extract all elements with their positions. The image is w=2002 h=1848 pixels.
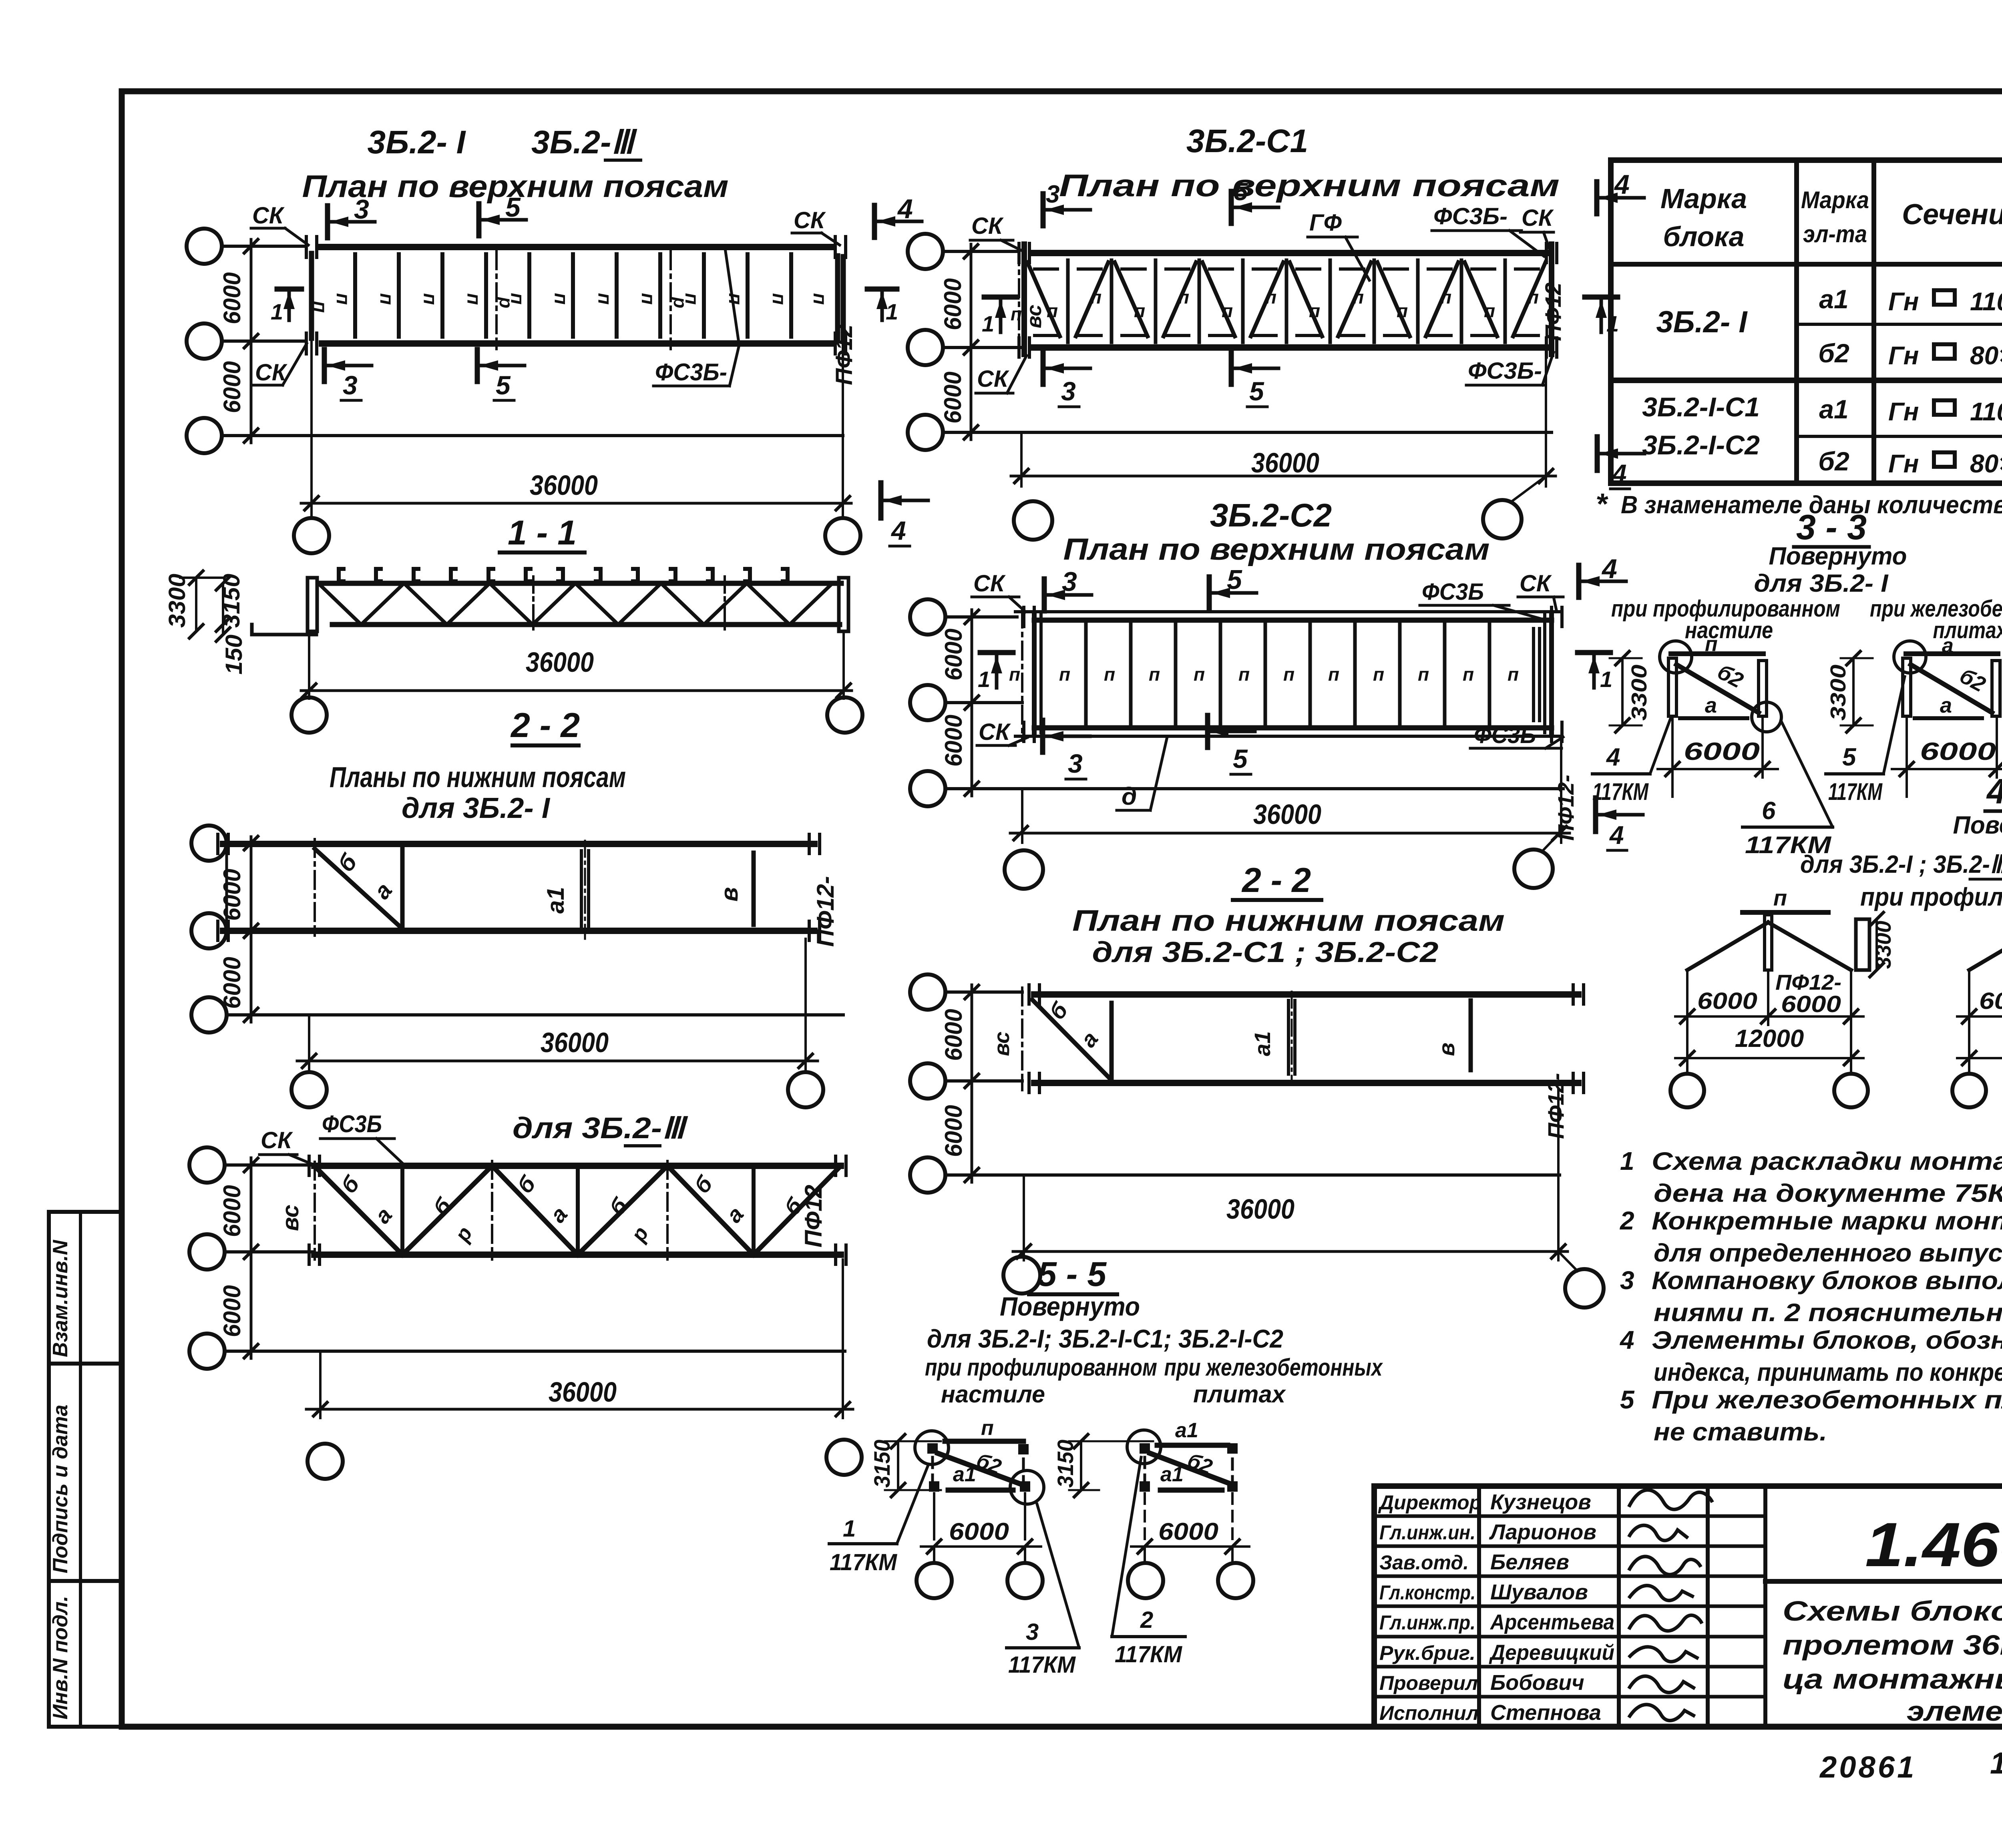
svg-text:Схемы блоков 3Б.2: Схемы блоков 3Б.2 xyxy=(1783,1595,2002,1627)
svg-text:5: 5 xyxy=(505,192,521,223)
svg-text:Сечение: Сечение xyxy=(1902,199,2002,231)
table of element masses xyxy=(1611,157,2002,163)
svg-text:117КМ: 117КМ xyxy=(1008,1652,1076,1678)
svg-text:6000: 6000 xyxy=(219,272,245,324)
svg-text:6000: 6000 xyxy=(219,1185,245,1237)
svg-text:Шувалов: Шувалов xyxy=(1490,1580,1588,1604)
svg-text:1: 1 xyxy=(1600,667,1612,692)
svg-text:ФС3Б: ФС3Б xyxy=(1422,579,1484,605)
svg-text:п: п xyxy=(768,293,790,305)
svg-text:п: п xyxy=(1373,664,1384,685)
svg-text:вс: вс xyxy=(277,1205,304,1231)
svg-text:для 3Б.2- I: для 3Б.2- I xyxy=(1754,570,1889,597)
svg-text:для 3Б.2-I; 3Б.2-I-С1; 3Б.2-I-: для 3Б.2-I; 3Б.2-I-С1; 3Б.2-I-С2 xyxy=(927,1324,1283,1353)
svg-text:6000: 6000 xyxy=(219,869,245,921)
svg-text:б2: б2 xyxy=(1818,338,1849,368)
notes 1-5 xyxy=(1619,1147,2002,1446)
svg-text:п: п xyxy=(1418,664,1429,685)
svg-text:Гл.констр.: Гл.констр. xyxy=(1379,1581,1475,1604)
purlin verticals with labels п xyxy=(353,254,357,337)
svg-text:п: п xyxy=(637,293,659,305)
svg-text:Компановку блоков выполнять: Компановку блоков выполнять в соответств… xyxy=(1652,1267,2002,1295)
left stamp boxes xyxy=(49,1212,122,1727)
svg-text:п: п xyxy=(1047,300,1058,321)
svg-text:блока: блока xyxy=(1663,221,1744,252)
svg-text:6000: 6000 xyxy=(1979,988,2002,1014)
svg-text:117КМ: 117КМ xyxy=(1592,778,1649,805)
svg-text:а: а xyxy=(1705,693,1717,717)
svg-text:80×3: 80×3 xyxy=(1970,341,2002,370)
svg-text:п: п xyxy=(310,301,331,313)
svg-text:а: а xyxy=(1940,693,1952,717)
svg-text:п: п xyxy=(1508,664,1519,685)
svg-text:ПФ12-: ПФ12- xyxy=(1553,775,1578,841)
svg-text:3150: 3150 xyxy=(1053,1440,1078,1488)
svg-text:6000: 6000 xyxy=(219,361,245,413)
svg-text:1: 1 xyxy=(1620,1147,1634,1175)
detail 3-3 at concrete slabs xyxy=(1894,641,1926,673)
svg-text:3Б.2- I: 3Б.2- I xyxy=(368,124,466,161)
dimension 6000+6000 xyxy=(250,239,253,443)
svg-text:6000: 6000 xyxy=(940,629,967,681)
svg-text:План по верхним поясам: План по верхним поясам xyxy=(1059,168,1560,203)
svg-text:п: п xyxy=(809,293,830,305)
svg-text:Кузнецов: Кузнецов xyxy=(1490,1490,1591,1514)
svg-text:р: р xyxy=(670,296,691,308)
svg-text:п: п xyxy=(1353,287,1364,307)
section arrows 1-1 xyxy=(277,287,302,292)
svg-text:117КМ: 117КМ xyxy=(830,1549,898,1575)
svg-text:3Б.2-С2: 3Б.2-С2 xyxy=(1210,497,1332,534)
svg-text:СК: СК xyxy=(977,366,1009,392)
svg-text:п: п xyxy=(550,293,571,305)
diagonal brace with labels б а xyxy=(315,849,402,929)
svg-text:при профилированном настиле: при профилированном настиле xyxy=(1860,882,2002,911)
svg-text:5: 5 xyxy=(1249,376,1264,406)
svg-text:Повернуто: Повернуто xyxy=(1000,1292,1140,1321)
svg-text:5: 5 xyxy=(496,370,511,400)
svg-text:ПФ12: ПФ12 xyxy=(1540,283,1566,341)
plan 2-2 for C1 C2 xyxy=(910,861,1604,1308)
svg-text:п: п xyxy=(1397,300,1408,321)
svg-text:п: п xyxy=(1309,300,1320,321)
svg-text:ГФ: ГФ xyxy=(1309,210,1342,236)
svg-text:Исполнил: Исполнил xyxy=(1379,1702,1479,1724)
dash-dot axes with labels р xyxy=(495,251,498,349)
svg-text:а1: а1 xyxy=(953,1463,976,1486)
svg-text:п: п xyxy=(420,293,441,305)
svg-text:п: п xyxy=(1283,664,1294,685)
svg-text:3Б.2- I: 3Б.2- I xyxy=(1656,305,1748,339)
svg-text:150: 150 xyxy=(221,635,247,675)
svg-text:4: 4 xyxy=(1619,1326,1634,1354)
svg-text:Зав.отд.: Зав.отд. xyxy=(1379,1551,1469,1574)
svg-text:3: 3 xyxy=(354,194,369,225)
svg-text:а1: а1 xyxy=(1819,394,1848,424)
svg-text:п: п xyxy=(1009,664,1020,685)
svg-text:СК: СК xyxy=(255,360,287,386)
svg-text:Гн: Гн xyxy=(1888,287,1919,316)
svg-text:для 3Б.2-I ; 3Б.2-Ⅲ: для 3Б.2-I ; 3Б.2-Ⅲ xyxy=(1800,851,2002,878)
dims 3300 3150 150 xyxy=(195,578,197,631)
svg-text:107: 107 xyxy=(1990,1746,2002,1780)
svg-text:ФС3Б-: ФС3Б- xyxy=(1468,358,1542,384)
svg-text:р: р xyxy=(496,296,517,308)
top chords of block (beam lines) xyxy=(318,244,832,250)
svg-text:3: 3 xyxy=(1068,749,1083,778)
svg-text:3: 3 xyxy=(343,370,358,400)
svg-text:12000: 12000 xyxy=(1735,1025,1804,1053)
svg-text:ца монтажных: ца монтажных xyxy=(1783,1663,2002,1695)
svg-text:б2: б2 xyxy=(1818,446,1849,476)
svg-text:Проверил: Проверил xyxy=(1379,1672,1478,1694)
svg-text:6000: 6000 xyxy=(939,372,966,424)
detail 5-5 xyxy=(829,1255,1383,1678)
svg-text:2: 2 xyxy=(1140,1607,1153,1633)
svg-text:Марка: Марка xyxy=(1660,183,1747,214)
svg-text:ниями п. 2 пояснительной за: ниями п. 2 пояснительной записки. xyxy=(1654,1299,2002,1327)
svg-text:План по нижним поясам: План по нижним поясам xyxy=(1072,904,1505,937)
svg-text:36000: 36000 xyxy=(1253,799,1321,830)
svg-text:дена на документе 75КМ.: дена на документе 75КМ. xyxy=(1654,1179,2002,1207)
svg-text:в: в xyxy=(716,887,743,902)
svg-text:Схема раскладки монтажных б: Схема раскладки монтажных блоков покрыти… xyxy=(1652,1147,2002,1175)
svg-text:СК: СК xyxy=(1520,570,1552,597)
svg-text:для 3Б.2-Ⅲ: для 3Б.2-Ⅲ xyxy=(513,1111,688,1145)
section 1-1 xyxy=(164,514,862,733)
svg-text:Гн: Гн xyxy=(1888,341,1919,370)
svg-text:1 - 1: 1 - 1 xyxy=(508,514,577,552)
svg-text:2 - 2: 2 - 2 xyxy=(1241,861,1311,900)
svg-text:5 - 5: 5 - 5 xyxy=(1037,1255,1107,1294)
title block frame xyxy=(1374,1483,2002,1489)
svg-text:п: п xyxy=(1328,664,1339,685)
svg-text:3150: 3150 xyxy=(869,1440,894,1488)
svg-text:при железобетонных: при железобетонных xyxy=(1164,1354,1383,1381)
svg-text:2 - 2: 2 - 2 xyxy=(510,706,580,745)
section cut marks 3 and 5 xyxy=(325,206,330,238)
svg-text:6000: 6000 xyxy=(1158,1518,1218,1545)
svg-text:Повернуто: Повернуто xyxy=(1953,812,2002,839)
svg-text:80×3: 80×3 xyxy=(1970,449,2002,478)
svg-text:1: 1 xyxy=(982,311,994,336)
bottom annotations xyxy=(1819,1746,2002,1784)
svg-text:Директор: Директор xyxy=(1378,1491,1481,1514)
svg-text:элементов: элементов xyxy=(1907,1695,2002,1727)
svg-text:ПФ12: ПФ12 xyxy=(831,324,857,385)
signatures xyxy=(1629,1490,1713,1510)
svg-text:6000: 6000 xyxy=(1781,991,1841,1017)
svg-text:3300: 3300 xyxy=(1871,921,1895,969)
svg-text:При железобетонных плитах в: При железобетонных плитах в покрытии про… xyxy=(1652,1386,2002,1414)
node detail at profiled deck xyxy=(915,1431,949,1464)
svg-text:Рук.бриг.: Рук.бриг. xyxy=(1379,1642,1475,1664)
svg-text:плитах: плитах xyxy=(1193,1381,1286,1408)
svg-text:СК: СК xyxy=(973,570,1006,597)
table of masses xyxy=(1596,160,2002,520)
svg-text:ФС3Б: ФС3Б xyxy=(322,1111,382,1137)
svg-text:п: п xyxy=(594,293,615,305)
svg-text:3150: 3150 xyxy=(219,574,245,628)
svg-text:4: 4 xyxy=(1606,743,1620,771)
svg-text:а1: а1 xyxy=(1160,1463,1184,1486)
svg-text:а1: а1 xyxy=(1250,1031,1275,1056)
svg-text:Гл.инж.пр.: Гл.инж.пр. xyxy=(1379,1611,1475,1634)
svg-text:СК: СК xyxy=(979,719,1011,745)
svg-text:для 3Б.2-С1 ; 3Б.2-С2: для 3Б.2-С1 ; 3Б.2-С2 xyxy=(1092,936,1439,968)
svg-text:Подпись и дата: Подпись и дата xyxy=(49,1404,72,1573)
svg-text:5: 5 xyxy=(1233,744,1248,773)
svg-text:настиле: настиле xyxy=(941,1381,1045,1408)
svg-text:*: * xyxy=(1596,487,1608,520)
plan 3B.2-C2 xyxy=(910,497,1643,889)
svg-text:п: п xyxy=(1265,287,1276,307)
svg-text:4: 4 xyxy=(1609,821,1624,850)
svg-text:Инв.N подл.: Инв.N подл. xyxy=(49,1596,72,1719)
svg-text:6000: 6000 xyxy=(1920,738,1996,765)
svg-text:д: д xyxy=(1122,783,1137,810)
svg-text:5: 5 xyxy=(1842,743,1857,771)
svg-text:36000: 36000 xyxy=(526,647,594,678)
svg-text:Повернуто: Повернуто xyxy=(1769,542,1907,570)
svg-text:а1: а1 xyxy=(542,887,569,914)
svg-text:п: п xyxy=(1238,664,1250,685)
document number 1.460.3-19-80KM xyxy=(1765,1579,2002,1584)
svg-text:1.460.3-19-80КМ: 1.460.3-19-80КМ xyxy=(1865,1510,2002,1580)
svg-text:6000: 6000 xyxy=(1684,738,1760,765)
svg-text:п: п xyxy=(463,293,484,305)
svg-text:п: п xyxy=(1484,300,1495,321)
svg-text:3: 3 xyxy=(1026,1619,1039,1645)
svg-text:117КМ: 117КМ xyxy=(1115,1641,1183,1667)
svg-text:Гн: Гн xyxy=(1888,449,1919,478)
svg-text:4 - 4: 4 - 4 xyxy=(1986,771,2002,811)
svg-text:2: 2 xyxy=(1620,1206,1634,1235)
svg-text:Бобович: Бобович xyxy=(1490,1671,1584,1695)
svg-text:36000: 36000 xyxy=(541,1027,609,1058)
svg-text:3Б.2-Ⅲ: 3Б.2-Ⅲ xyxy=(531,124,637,161)
svg-text:ПФ12-: ПФ12- xyxy=(1543,1073,1568,1139)
svg-text:6000: 6000 xyxy=(219,957,245,1009)
svg-text:6: 6 xyxy=(1762,797,1776,825)
detail 4-4 figure 2 xyxy=(1969,922,2002,970)
svg-text:п: п xyxy=(1090,287,1102,307)
svg-text:при профилированном: при профилированном xyxy=(925,1354,1157,1381)
svg-text:Ларионов: Ларионов xyxy=(1489,1520,1596,1544)
svg-text:СК: СК xyxy=(971,213,1004,239)
svg-text:3 - 3: 3 - 3 xyxy=(1796,507,1867,547)
svg-text:п: п xyxy=(376,293,397,305)
svg-text:Конкретные марки монтажных: Конкретные марки монтажных блоков, приме… xyxy=(1652,1207,2002,1235)
svg-text:Степнова: Степнова xyxy=(1490,1701,1601,1725)
truss chords section 1-1 xyxy=(318,581,841,586)
svg-text:настиле: настиле xyxy=(1685,617,1773,643)
svg-text:1: 1 xyxy=(978,667,990,692)
svg-text:п: п xyxy=(1440,287,1451,307)
svg-text:117КМ: 117КМ xyxy=(1828,778,1883,805)
svg-text:План по верхним поясам: План по верхним поясам xyxy=(1063,532,1490,566)
svg-text:4: 4 xyxy=(897,194,913,224)
svg-text:ПФ12: ПФ12 xyxy=(800,1185,827,1247)
svg-text:3300: 3300 xyxy=(164,574,190,628)
svg-text:п: п xyxy=(1528,287,1539,307)
svg-text:п: п xyxy=(1149,664,1160,685)
plans 2-2 lower chords for 3B.2-I xyxy=(191,706,843,1107)
svg-text:36000: 36000 xyxy=(1226,1193,1294,1225)
svg-text:36000: 36000 xyxy=(1251,447,1319,478)
svg-text:п: п xyxy=(725,293,746,305)
svg-text:110×3: 110×3 xyxy=(1970,397,2002,426)
sections 3-3 xyxy=(1592,507,2002,858)
sections 4-4 xyxy=(1670,771,2002,1107)
svg-text:СК: СК xyxy=(261,1127,293,1153)
svg-text:п: п xyxy=(1059,664,1070,685)
svg-text:индекса, принимать по конкр: индекса, принимать по конкретному объект… xyxy=(1654,1358,2002,1386)
grid axis circles xyxy=(187,229,222,264)
svg-text:ФС3Б-: ФС3Б- xyxy=(1433,203,1508,229)
svg-text:а1: а1 xyxy=(1819,284,1848,314)
svg-text:Гл.инж.ин.: Гл.инж.ин. xyxy=(1379,1521,1475,1544)
svg-text:5: 5 xyxy=(1620,1385,1635,1414)
svg-text:Арсентьева: Арсентьева xyxy=(1489,1610,1614,1634)
svg-text:3: 3 xyxy=(1046,181,1059,208)
zigzag braces б а р xyxy=(314,1166,402,1255)
block chords with bracing xyxy=(1032,250,1546,256)
svg-text:5: 5 xyxy=(1227,564,1242,595)
plan 3B.2-C1 xyxy=(908,123,1644,540)
svg-text:36000: 36000 xyxy=(549,1376,617,1408)
svg-text:3: 3 xyxy=(1062,566,1077,597)
svg-text:СК: СК xyxy=(1522,205,1554,231)
svg-text:ФС3Б: ФС3Б xyxy=(1474,722,1536,748)
svg-text:п: п xyxy=(1773,885,1787,910)
truss web diagonals xyxy=(318,583,361,625)
svg-text:110×3: 110×3 xyxy=(1970,287,2002,316)
svg-text:3300: 3300 xyxy=(1627,665,1651,721)
svg-text:1: 1 xyxy=(271,299,283,324)
svg-text:Деревицкий: Деревицкий xyxy=(1489,1641,1614,1665)
svg-text:20861: 20861 xyxy=(1819,1750,1916,1784)
svg-text:6000: 6000 xyxy=(219,1285,245,1337)
svg-text:3: 3 xyxy=(1061,376,1076,406)
svg-text:3300: 3300 xyxy=(1826,665,1850,721)
svg-text:вс: вс xyxy=(1023,305,1046,328)
svg-text:пролетом 36м и табли-: пролетом 36м и табли- xyxy=(1783,1629,2002,1661)
svg-text:п: п xyxy=(1222,300,1233,321)
svg-text:п: п xyxy=(1134,300,1145,321)
svg-text:п: п xyxy=(332,293,354,305)
detail 3-3 at profiled deck xyxy=(1660,641,1692,673)
svg-text:1: 1 xyxy=(843,1516,856,1542)
svg-text:вс: вс xyxy=(990,1032,1014,1056)
svg-text:4: 4 xyxy=(1601,554,1617,584)
title block xyxy=(1374,1486,2002,1727)
svg-text:6000: 6000 xyxy=(940,1009,967,1061)
svg-text:6000: 6000 xyxy=(939,278,966,330)
svg-text:ПФ12-: ПФ12- xyxy=(1775,970,1841,994)
svg-text:Взам.инв.N: Взам.инв.N xyxy=(49,1239,72,1357)
plan for 3B.2-III xyxy=(189,1111,862,1479)
svg-text:не ставить.: не ставить. xyxy=(1654,1418,1827,1446)
svg-text:3Б.2-С1: 3Б.2-С1 xyxy=(1186,123,1308,159)
svg-text:Элементы блоков, обозначенные: Элементы блоков, обозначенные буквами бе… xyxy=(1652,1326,2002,1354)
svg-text:для 3Б.2- I: для 3Б.2- I xyxy=(402,792,551,824)
svg-text:6000: 6000 xyxy=(940,1105,967,1157)
svg-text:ФС3Б-: ФС3Б- xyxy=(655,359,727,386)
svg-text:а1: а1 xyxy=(1175,1419,1198,1442)
block chords (double lines) xyxy=(1015,610,1562,613)
svg-text:3: 3 xyxy=(1620,1266,1634,1295)
plan 3B.2-I top chords xyxy=(187,124,928,553)
svg-text:4: 4 xyxy=(1614,169,1630,200)
svg-text:п: п xyxy=(1463,664,1474,685)
svg-text:3Б.2-I-С2: 3Б.2-I-С2 xyxy=(1642,430,1760,460)
svg-text:СК: СК xyxy=(252,203,285,229)
svg-text:п: п xyxy=(981,1416,994,1440)
svg-text:6000: 6000 xyxy=(949,1518,1009,1545)
svg-text:4: 4 xyxy=(890,516,906,545)
svg-text:п: п xyxy=(1104,664,1115,685)
svg-text:Беляев: Беляев xyxy=(1490,1550,1569,1574)
svg-text:1: 1 xyxy=(886,299,898,324)
svg-text:эл-та: эл-та xyxy=(1803,221,1867,247)
grid axis circles xyxy=(908,234,943,269)
svg-text:в: в xyxy=(1434,1043,1459,1056)
svg-text:6000: 6000 xyxy=(940,715,967,767)
detail 4-4 figure 1 xyxy=(1687,922,1768,970)
node detail at concrete slabs xyxy=(1127,1430,1161,1464)
svg-text:5: 5 xyxy=(1234,178,1248,206)
svg-text:Марка: Марка xyxy=(1801,187,1869,213)
side stamp boxes xyxy=(49,1212,122,1364)
svg-text:6000: 6000 xyxy=(1697,988,1757,1014)
svg-text:СК: СК xyxy=(794,207,826,233)
svg-text:ПФ12-: ПФ12- xyxy=(812,876,839,947)
svg-text:п: п xyxy=(1194,664,1205,685)
svg-text:для определенного выпуска,: для определенного выпуска, приведены на … xyxy=(1654,1239,2002,1267)
svg-text:Планы по нижним поясам: Планы по нижним поясам xyxy=(330,761,626,793)
svg-text:п: п xyxy=(1178,287,1189,307)
svg-text:Гн: Гн xyxy=(1888,397,1919,426)
svg-text:3Б.2-I-С1: 3Б.2-I-С1 xyxy=(1642,392,1760,422)
svg-text:36000: 36000 xyxy=(530,470,598,501)
